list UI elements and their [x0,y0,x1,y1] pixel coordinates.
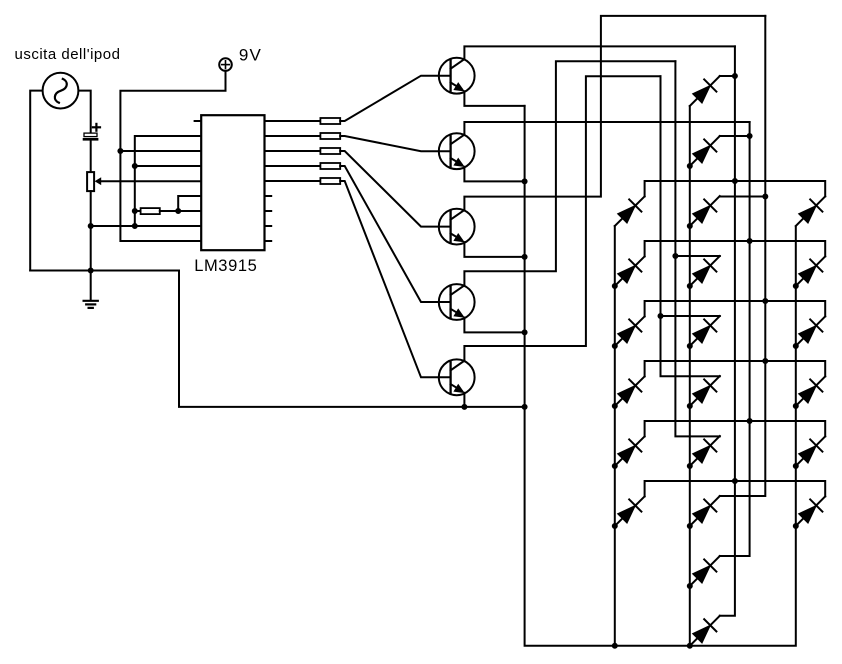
wire resistor R3 to transistor Q3 base [340,151,450,227]
resistor R2 (base resistor) [320,133,340,139]
wire U1 pin loop (divider top) down the left bus [135,136,201,226]
wire Q4 emitter to common bus [464,318,524,333]
LED D5 (left column row 5) [615,436,645,466]
LED D11 (middle column level 5) [690,316,720,346]
node: D4 anode junction [612,404,617,409]
node: left bus bottom junction [132,224,137,229]
wire Q3 collector route to column C top rail [464,16,765,210]
wire D7 cathode to column A [720,75,735,77]
wire R6 junction hook to U1 pin above [178,196,201,211]
node: D22 anode junction [793,524,798,529]
LED D19 (right column row 3) [796,316,825,346]
node: D8 cathode junction [747,134,752,139]
wire Q3 emitter to common bus [464,242,524,257]
node: row 1 column junction [732,179,737,184]
LED D22 (right column row 6) [796,496,825,526]
wire Q1 emitter to common bus [464,91,524,106]
node: D21 anode junction [793,464,798,469]
U1 pin 1 NC stub (top-left) [195,120,202,122]
node: D15 anode junction [687,584,692,589]
wire potentiometer bottom down to ground node [90,191,92,270]
wire LED row 4 cathode wire [645,361,826,376]
wire column A vertical (Q1 net) [720,46,735,615]
LED D13 (middle column level 7) [690,436,720,466]
node: D5 anode junction [612,464,617,469]
U1 NC pin stub right 3 [265,225,272,227]
wire source right terminal to capacitor top [79,91,91,134]
node: D8 anode junction [687,164,692,169]
node: D20 anode junction [793,404,798,409]
potentiometer P1 wiper arrow and wire to U1 pin (SIG) [95,177,202,185]
U1 NC pin stub right 4 [265,240,272,242]
node: row 4 column junction [763,359,768,364]
wire resistor R1 to transistor Q1 base [340,76,450,121]
node: left bus junction pin 136 [132,164,137,169]
wire LED row 3 cathode wire [645,301,826,316]
resistor R5 (base resistor) [320,178,340,184]
node: pot-bottom junction [88,224,93,229]
wire Q2 emitter to common bus [464,167,524,182]
wire pot bottom to U1 pin (RLO) [91,225,202,227]
node: D6 anode junction [612,524,617,529]
node: D3 anode junction [612,344,617,349]
transistor Q4 (NPN) [439,284,475,320]
transistor Q1 (NPN) [439,58,475,94]
node: row 6 column junction [732,479,737,484]
LED D21 (right column row 5) [796,436,825,466]
wire D10 cathode to column D [675,255,719,257]
node: Q4 emitter junction [522,330,527,335]
node: D9 anode junction [687,224,692,229]
wire resistor R6 to U1 pin [160,210,201,212]
capacitor C1 (coupling, polarized) [84,124,100,139]
LED D6 (left column row 6) [615,496,645,526]
wire LED row 1 cathode wire [645,181,826,196]
svg-text:uscita dell'ipod: uscita dell'ipod [15,46,121,63]
wire LED row 2 cathode wire [645,241,826,256]
node: R6 output junction [176,209,181,214]
node: D11 cathode junction [658,314,663,319]
LED D18 (right column row 2) [796,256,825,286]
node: D13 anode junction [687,464,692,469]
wire resistor R2 to transistor Q2 base [340,136,450,151]
wire 9V branch to U1 pin [120,150,201,152]
node: D11 anode junction [687,344,692,349]
wire left bus to U1 pin (REF) [135,165,201,167]
node: row 3 column junction [763,299,768,304]
transistor Q3 (NPN) [439,209,475,245]
wire Q1 collector to column A top rail [464,46,735,59]
node: D10 anode junction [687,284,692,289]
LED D2 (left column row 2) [615,256,645,286]
resistor R4 (base resistor) [320,163,340,169]
LED D12 (middle column level 6) [690,376,720,406]
potentiometer P1 body [87,172,94,191]
wire capacitor bottom to potentiometer top [90,141,92,173]
resistor R3 (base resistor) [320,148,340,154]
node: ground junction [88,268,93,273]
LED D17 (right column row 1) [796,196,825,226]
node: D2 anode junction [612,284,617,289]
wire column C vertical (Q3 net) [720,16,766,496]
wire U1 output pin 1 to resistor R1 [265,120,321,122]
node: Q3 emitter junction [522,254,527,259]
wire D9 cathode to column C [720,196,766,198]
node: 9V branch junction [118,149,123,154]
wire 9V supply to U1 V+ pin [120,71,225,241]
node: left bus junction at R6 [132,209,137,214]
LED D4 (left column row 4) [615,376,645,406]
AC source V1 (uscita dell'ipod) [43,73,79,109]
LED D20 (right column row 4) [796,376,825,406]
node: row 2 column junction [747,239,752,244]
node: bus corner junction [522,404,527,409]
wire source left terminal down to ground rail [30,91,42,271]
node: D7 cathode junction [732,74,737,79]
wire U1 output pin 3 to resistor R3 [265,150,321,152]
transistor Q5 (NPN) [439,359,475,395]
wire U1 output pin 2 to resistor R2 [265,135,321,137]
resistor R6 (reference adjust) [141,208,160,214]
node: Q5 emitter junction [462,404,467,409]
node: D18 anode junction [793,284,798,289]
wire LED row 5 cathode wire [645,421,826,436]
node: D12 anode junction [687,404,692,409]
wire middle LED column anode rail [689,106,691,646]
LED D15 (middle column level 9) [690,556,720,586]
wire Q5 emitter down to ground wire [463,393,465,407]
wire U1 output pin 4 to resistor R4 [265,165,321,167]
wire resistor R4 to transistor Q4 base [340,166,450,302]
node: row 5 column junction [747,419,752,424]
ground symbol [84,271,98,308]
wire D11 cathode to column E [661,315,720,317]
svg-text:LM3915: LM3915 [194,257,257,275]
node: bottom wire / middle LED column junction [687,643,692,648]
node: D14 anode junction [687,524,692,529]
wire column B vertical (Q2 net) [720,122,750,556]
LED D9 (middle column level 3) [690,196,720,226]
U1 NC pin stub right 2 [265,210,272,212]
node: bottom wire / left LED column junction [612,643,617,648]
wire Q2 collector to column B top rail [464,122,749,135]
wire left LED column anode rail [614,226,616,646]
wire U1 output pin 5 to resistor R5 [265,180,321,182]
wire D8 cathode to column B [720,135,750,137]
LED D8 (middle column level 2) [690,136,720,166]
LED D16 (middle column level 10) [690,616,720,646]
wire column E vertical (Q5 net) [661,76,720,376]
node: Q2 emitter junction [522,179,527,184]
wire common emitter bus down, across matrix bottom and up right column [525,106,796,646]
svg-text:9V: 9V [239,45,262,64]
wire left bus to resistor R6 [135,210,141,212]
wire LED row 6 cathode wire [645,481,826,496]
wire Q5 collector route to column E rail [464,76,660,361]
op-amp U1 LM3915 body [201,115,264,250]
wire Q4 collector route to column D rail [464,61,675,285]
LED D7 (middle column level 1) [690,76,720,106]
U1 NC pin stub right 1 [265,195,272,197]
transistor Q2 (NPN) [439,133,475,169]
LED D14 (middle column level 8) [690,496,720,526]
wire resistor R5 to transistor Q5 base [340,181,450,377]
node: D9 cathode junction [763,194,768,199]
LED D3 (left column row 3) [615,316,645,346]
wire ground rail (source return to emitter bus) [30,271,524,407]
wire column D vertical (Q4 net) [675,61,719,436]
node: D19 anode junction [793,344,798,349]
resistor R1 (base resistor) [320,118,340,124]
node: D10 cathode junction [673,254,678,259]
LED D1 (left column row 1) [615,196,645,226]
LED D10 (middle column level 4) [690,256,720,286]
9V supply symbol [219,58,232,71]
